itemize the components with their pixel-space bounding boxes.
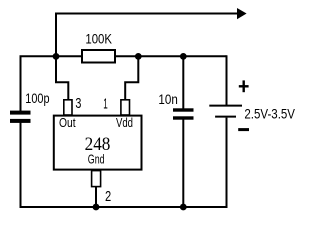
capacitor C1 plate bottom: [10, 119, 31, 123]
IC U1 box: [54, 116, 142, 170]
svg-text:Vdd: Vdd: [116, 115, 133, 130]
svg-text:2: 2: [105, 188, 111, 205]
capacitor C1 plate top: [10, 111, 31, 115]
svg-text:Gnd: Gnd: [88, 152, 105, 167]
svg-text:100K: 100K: [85, 31, 112, 47]
plus sign: [239, 85, 249, 87]
node E junction dot (10n bottom / ground rail): [180, 204, 187, 211]
svg-text:10n: 10n: [158, 91, 177, 107]
resistor R1 100K body: [82, 50, 115, 63]
minus sign: [238, 128, 249, 131]
capacitor C1 100p: top lead: [20, 56, 22, 111]
svg-text:1: 1: [103, 96, 108, 113]
node C junction dot (10n top): [180, 53, 187, 60]
capacitor C2 10n: top lead: [182, 56, 184, 109]
capacitor C2 plate bottom: [173, 116, 194, 119]
wire: lead from node B to pin 1: [125, 56, 138, 100]
svg-text:2.5V-3.5V: 2.5V-3.5V: [244, 105, 295, 121]
capacitor C2 plate top: [173, 108, 194, 111]
wire: lead from pin 2 down to ground rail: [95, 187, 97, 207]
wire: output line from node A to arrow: [55, 13, 238, 15]
output arrowhead: [237, 8, 247, 19]
wire: bottom ground rail: [20, 206, 228, 208]
wire: battery top lead from mid rail corner: [226, 55, 228, 105]
pin 3 terminal rectangle: [64, 100, 72, 115]
battery BT1 long plate (+): [209, 105, 242, 107]
svg-text:100p: 100p: [25, 90, 49, 106]
node D junction dot (pin2 / ground rail): [93, 204, 100, 211]
node A junction dot: [53, 53, 60, 60]
wire: lead from node A to pin 3: [56, 56, 68, 100]
wire: vertical from output line down to node A: [55, 13, 57, 58]
wire: mid rail between resistor and battery corner: [114, 55, 227, 57]
capacitor C1 bottom lead: [20, 123, 22, 208]
svg-text:3: 3: [75, 95, 81, 112]
svg-text:Out: Out: [59, 115, 76, 130]
capacitor C2 bottom lead: [182, 120, 184, 208]
node B junction dot (resistor right / pin1 lead): [135, 53, 142, 60]
wire: battery bottom lead to ground rail: [226, 118, 228, 208]
pin 2 terminal rectangle: [92, 171, 101, 187]
battery BT1 short plate (-): [215, 116, 236, 118]
pin 1 terminal rectangle: [121, 100, 130, 115]
wire: mid horizontal rail left segment (cap branch corner to resistor): [21, 56, 83, 58]
